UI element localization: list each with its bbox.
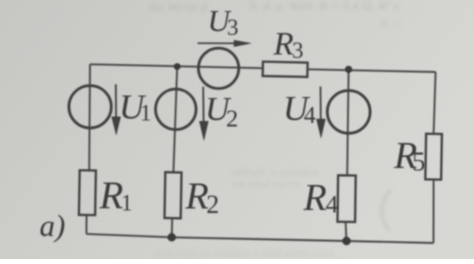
wire right branch upper <box>434 72 436 134</box>
junction node bottom (R2) <box>168 233 176 241</box>
resistor R2 <box>164 172 181 218</box>
resistor R1 <box>79 170 96 215</box>
wire U4 branch lower <box>345 222 348 241</box>
svg-text:4: 4 <box>304 103 316 129</box>
wire top right span <box>308 69 436 72</box>
junction node top-right (U4/R3) <box>345 66 352 73</box>
svg-text:im blsd no ra: im blsd no ra <box>232 176 301 191</box>
svg-text:4: 4 <box>326 190 339 219</box>
wire U2 branch lower <box>171 218 174 237</box>
arrow U1 <box>112 84 121 135</box>
wire bottom <box>86 234 433 243</box>
wire top left span <box>90 64 263 68</box>
svg-text:R: R <box>303 177 327 219</box>
svg-text:2: 2 <box>206 190 219 219</box>
svg-text:und blsd no raslden v slad onb: und blsd no raslden v slad onbe rises <box>155 246 334 259</box>
svg-text:5: 5 <box>412 147 426 177</box>
wire U2 branch upper <box>173 67 177 173</box>
source U1 <box>69 86 111 128</box>
source U3 <box>198 48 238 88</box>
wire left branch upper <box>88 64 91 170</box>
faint bleed-through print <box>148 0 403 260</box>
arrow U2 <box>199 87 208 141</box>
svg-text:2: 2 <box>226 106 238 133</box>
arrow U4 <box>317 87 326 138</box>
svg-text:h. d. u. Wäh. R = 0,4 Ω, R³ n: h. d. u. Wäh. R = 0,4 Ω, R³ n <box>250 0 400 13</box>
wire U4 branch upper <box>347 69 348 175</box>
svg-text:R: R <box>185 176 209 218</box>
junction node bottom (R4) <box>342 237 350 245</box>
junction node top-left (U2/U3) <box>174 63 181 70</box>
wire left branch lower <box>85 215 87 234</box>
svg-text:a): a) <box>40 208 66 243</box>
svg-text:R: R <box>273 26 294 62</box>
svg-text:3: 3 <box>227 15 239 40</box>
svg-text:1: 1 <box>140 101 152 126</box>
source U4 <box>327 91 370 134</box>
svg-text:R: R <box>99 174 124 217</box>
wire right branch lower <box>433 180 435 243</box>
resistor R5 <box>425 134 442 180</box>
resistor R3 <box>263 62 308 77</box>
resistor R4 <box>337 175 355 222</box>
circuit ink <box>69 48 442 243</box>
svg-text:1: 1 <box>121 190 133 215</box>
svg-text:3: 3 <box>292 38 304 63</box>
svg-text:R₁ =: R₁ = <box>379 16 403 30</box>
source U2 <box>156 89 197 130</box>
svg-text:die Werte d: die Werte d <box>148 0 207 14</box>
arrow U3 <box>198 40 251 46</box>
